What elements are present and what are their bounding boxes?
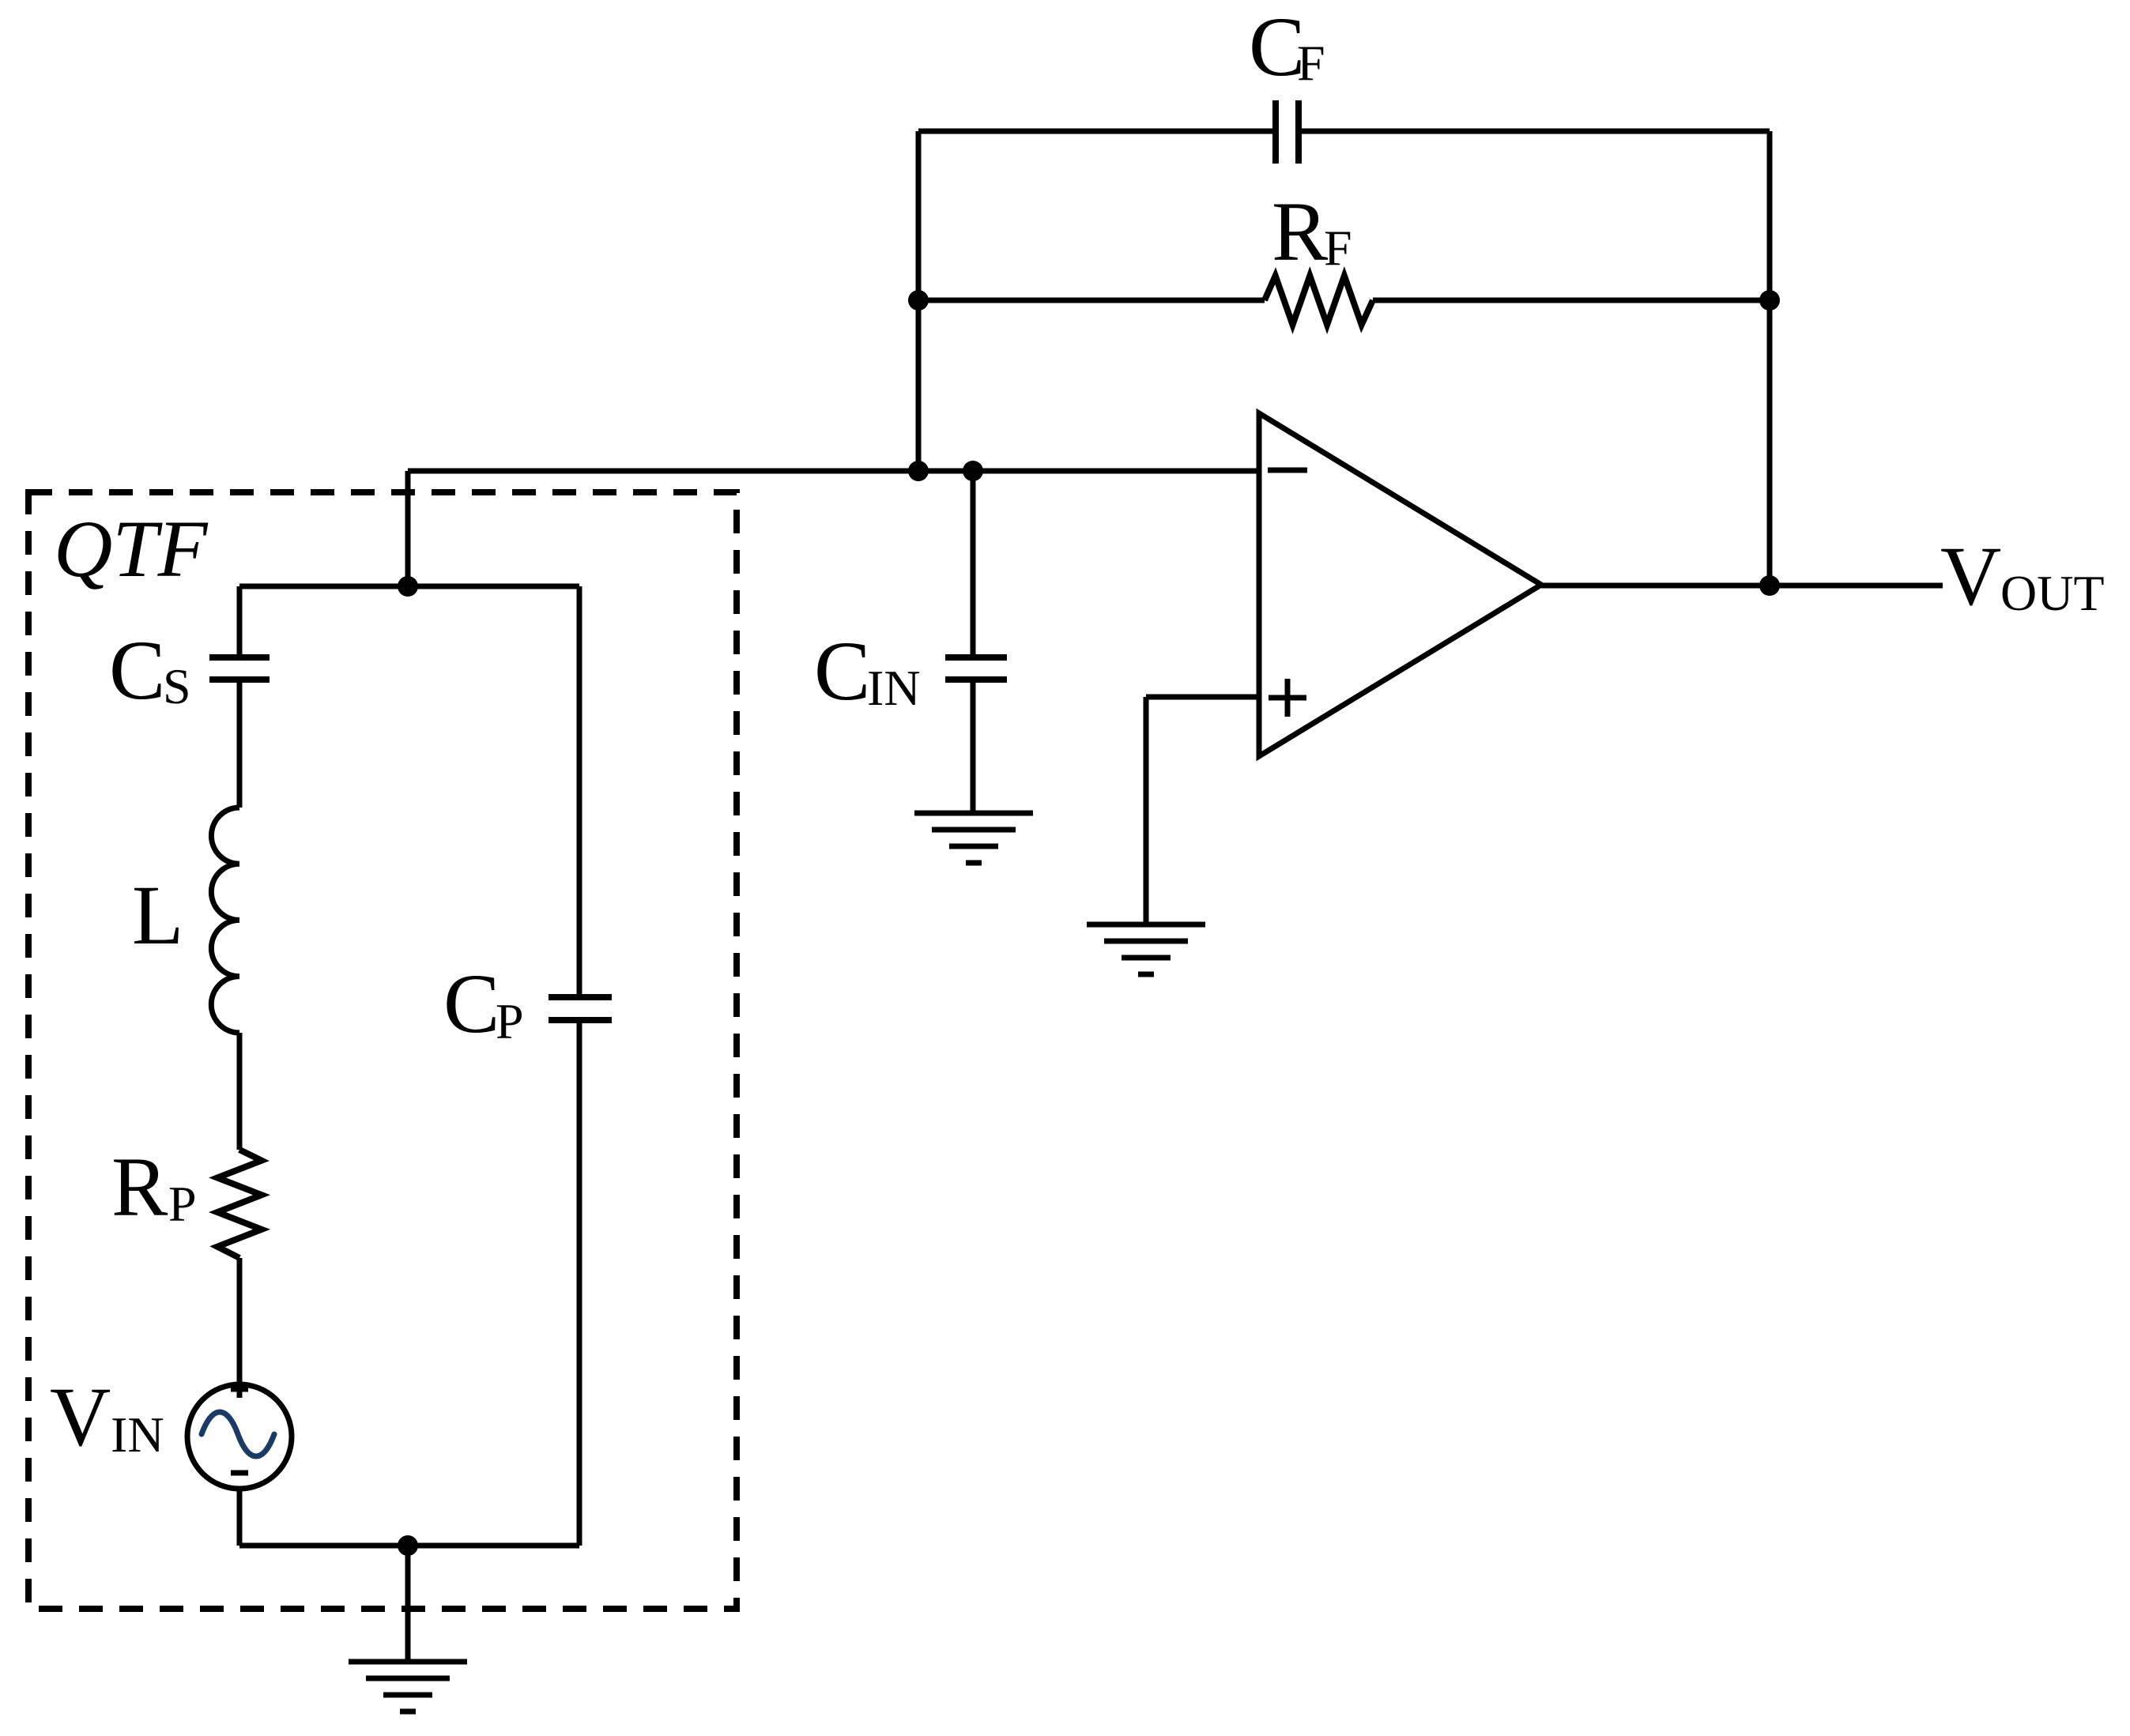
svg-text:V: V — [1940, 530, 2001, 623]
svg-text:IN: IN — [111, 1406, 164, 1463]
svg-text:F: F — [1297, 35, 1325, 91]
svg-text:F: F — [1324, 220, 1352, 276]
svg-text:C: C — [443, 958, 500, 1051]
svg-text:S: S — [163, 658, 191, 714]
svg-text:R: R — [1272, 186, 1329, 279]
svg-text:OUT: OUT — [2000, 565, 2105, 621]
svg-text:C: C — [814, 625, 870, 718]
svg-text:IN: IN — [867, 660, 921, 716]
svg-text:V: V — [50, 1371, 111, 1464]
svg-text:C: C — [109, 624, 165, 717]
svg-text:QTF: QTF — [54, 504, 209, 594]
svg-text:L: L — [132, 869, 183, 962]
svg-text:P: P — [168, 1176, 197, 1232]
svg-text:R: R — [111, 1141, 168, 1234]
svg-text:P: P — [496, 993, 524, 1049]
